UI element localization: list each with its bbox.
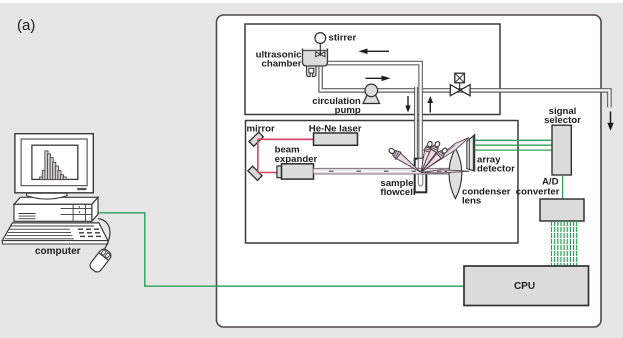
svg-text:selector: selector — [544, 115, 581, 126]
flow arrow left (top return pipe) — [359, 49, 390, 55]
flow arrow right (supply pipe) — [366, 76, 391, 82]
outer enclosure box — [217, 15, 602, 327]
svg-text:flowcell: flowcell — [380, 187, 415, 198]
array detector — [467, 135, 475, 171]
keyboard — [2, 223, 108, 244]
computer monitor — [15, 134, 93, 193]
green ribbon cable A/D to CPU — [552, 221, 577, 266]
svg-text:(a): (a) — [17, 17, 35, 34]
expanded laser beam band — [314, 168, 450, 174]
svg-text:mirror: mirror — [247, 123, 276, 134]
svg-text:computer: computer — [35, 246, 81, 257]
sample flowcell — [415, 159, 427, 193]
svg-text:detector: detector — [477, 164, 515, 175]
svg-text:lens: lens — [462, 196, 481, 207]
scattered ray cone to detector (lower) — [421, 170, 469, 173]
green wire computer to CPU — [97, 213, 465, 286]
mirror M2 (bottom) — [248, 166, 262, 180]
svg-text:expander: expander — [275, 154, 318, 165]
svg-text:pump: pump — [335, 105, 361, 116]
red beam M2 to beam expander — [258, 172, 278, 174]
drain arrow outside box — [607, 112, 613, 131]
scattered ray cone to detector (upper) — [421, 138, 469, 172]
optics box — [246, 121, 519, 244]
scattered ray petal up-left — [387, 146, 424, 176]
svg-text:stirrer: stirrer — [329, 33, 357, 44]
ultrasonic chamber vessel — [303, 49, 328, 77]
drain valve V1 — [450, 73, 470, 96]
green signal lines detector to signal selector — [475, 140, 552, 150]
pipe: chamber outlet to pump to drain valve and drain outlet — [321, 66, 610, 107]
stirrer — [315, 33, 326, 57]
svg-text:He-Ne laser: He-Ne laser — [309, 123, 362, 134]
svg-text:converter: converter — [516, 187, 560, 198]
scattered ray petal up-right mid — [417, 140, 442, 175]
He-Ne laser — [314, 133, 358, 145]
signal selector box — [552, 125, 571, 175]
red beam laser to mirror M1 — [258, 138, 314, 140]
CPU box — [464, 266, 589, 306]
svg-text:CPU: CPU — [514, 281, 535, 292]
red beam M1 down to M2 — [257, 139, 259, 172]
computer system unit — [14, 197, 98, 221]
top plumbing box — [245, 24, 500, 115]
histogram on screen — [40, 151, 66, 180]
A/D converter box — [540, 199, 584, 221]
beam expander — [277, 164, 314, 179]
scattered ray petal up-right 45 — [418, 146, 449, 176]
flow arrow up (return) — [428, 96, 434, 113]
top white strip — [0, 0, 623, 3]
pipe: return from flowcell up and back to chamber — [327, 63, 420, 162]
mouse cable — [98, 219, 110, 250]
circulation pump P1 — [363, 84, 380, 103]
mirror M1 (top) — [249, 132, 263, 146]
green wire signal selector to A/D converter — [562, 175, 564, 199]
mouse — [88, 247, 113, 274]
monitor stand — [27, 193, 68, 199]
condenser lens — [449, 148, 462, 199]
pipe: supply branch down to flowcell — [414, 86, 418, 162]
svg-text:chamber: chamber — [262, 59, 302, 70]
scattered ray petal steep up — [417, 140, 435, 173]
flow arrow down (supply) — [405, 96, 411, 113]
